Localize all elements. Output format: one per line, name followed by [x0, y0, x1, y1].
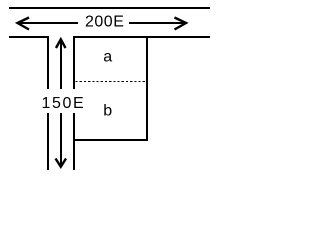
svg-text:b: b — [103, 103, 112, 120]
svg-text:a: a — [103, 49, 112, 66]
svg-text:200E: 200E — [85, 14, 124, 31]
svg-text:150E: 150E — [42, 95, 86, 112]
